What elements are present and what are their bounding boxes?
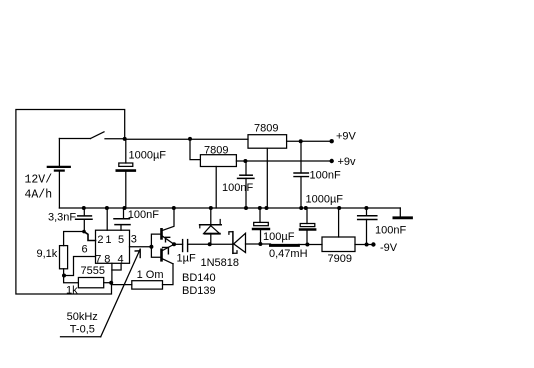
wire output to 1uF — [174, 243, 183, 245]
wire pin 3 to base node — [130, 246, 152, 248]
node zener junction — [208, 242, 212, 246]
diode D2 1N5818 (Schottky) — [229, 232, 271, 254]
label 7909 — [328, 253, 352, 265]
label 100nF (C6) — [128, 209, 159, 221]
wire pin 1 to rail — [106, 208, 108, 230]
ground symbol — [394, 208, 412, 218]
label 50kHz — [67, 311, 98, 323]
wire top +12V line — [125, 138, 248, 140]
capacitor C4 1000uF (right) — [300, 208, 315, 245]
svg-text:7: 7 — [95, 253, 101, 265]
wire 9,1k top to node — [64, 232, 84, 246]
wire +9V output line — [287, 140, 332, 142]
pin labels 7 8 4 — [95, 253, 123, 265]
svg-text:1 Om: 1 Om — [137, 269, 164, 281]
node 1k right / pins 8-4 / +12V — [109, 281, 113, 285]
wire ground rail — [59, 207, 400, 209]
svg-text:BD139: BD139 — [182, 285, 216, 297]
svg-text:3: 3 — [131, 234, 137, 246]
svg-text:5: 5 — [118, 234, 124, 246]
wire pin 4 — [112, 263, 121, 270]
label 1uF — [177, 252, 196, 264]
capacitor C2 100nF (under +9v line) — [238, 161, 254, 208]
node 1000uF / 7909 input — [305, 243, 309, 247]
transistor Q1 BD140 (top, PNP) — [162, 208, 175, 244]
svg-text:7555: 7555 — [81, 265, 105, 277]
label 0,47mH — [269, 248, 308, 260]
svg-text:4A/h: 4A/h — [25, 189, 53, 202]
label 1000uF (C4) — [306, 194, 344, 206]
wire 3,3nF node to pin 2 — [84, 232, 96, 241]
svg-text:1µF: 1µF — [177, 252, 196, 264]
transistor Q2 BD139 (bottom, NPN) — [162, 244, 175, 263]
svg-text:2: 2 — [97, 234, 103, 246]
wire 1 Om right to Q2 collector — [163, 264, 174, 285]
svg-text:1000µF: 1000µF — [306, 194, 344, 206]
node 100nF branch on +9V — [299, 139, 303, 143]
wire 7909 ground pin — [338, 208, 340, 237]
node pin2 / 3,3nF junction — [82, 230, 86, 234]
label T-0,5 — [70, 324, 95, 336]
svg-text:12V/: 12V/ — [25, 174, 53, 187]
wire pin 6 — [64, 257, 96, 276]
svg-text:1N5818: 1N5818 — [201, 257, 240, 269]
svg-text:100nF: 100nF — [128, 209, 159, 221]
svg-text:100nF: 100nF — [375, 225, 406, 237]
label 1k — [66, 285, 78, 297]
svg-text:100nF: 100nF — [310, 170, 341, 182]
wire battery-pack outline (+12V routing loop) — [16, 110, 125, 295]
node A (switch output) — [123, 137, 127, 141]
rail junction dots — [82, 206, 369, 210]
inductor L1 0,47mH — [271, 244, 299, 247]
pointer arrow 50kHz — [61, 249, 141, 337]
label 1 Om — [137, 269, 164, 281]
svg-text:T-0,5: T-0,5 — [70, 324, 95, 336]
terminal +9V — [330, 139, 334, 143]
label BD140 — [182, 272, 216, 284]
battery 12V/4A/h — [48, 167, 70, 208]
switch S1 — [59, 132, 124, 139]
label 3,3nF — [48, 211, 76, 223]
node branch to lower 7809 — [188, 137, 192, 141]
wire 1k right — [104, 282, 112, 284]
svg-text:7809: 7809 — [204, 144, 228, 156]
label 1N5818 — [201, 257, 240, 269]
svg-text:50kHz: 50kHz — [67, 311, 98, 323]
regulator U4 7909 — [322, 237, 355, 252]
regulator U2 7809 (lower) — [200, 155, 236, 167]
svg-text:0,47mH: 0,47mH — [269, 248, 308, 260]
capacitor C5 3,3nF — [76, 208, 92, 232]
label 7555 — [81, 265, 105, 277]
wire to lower 7809 input — [190, 139, 200, 159]
capacitor C9 100nF (on -9V) — [358, 208, 377, 245]
label pin 3 — [131, 234, 137, 246]
IC U3 7555 — [96, 230, 130, 263]
capacitor C3 100nF (under +9V line) — [294, 141, 308, 208]
wire zener node to D2 — [210, 243, 233, 245]
label 9,1k — [37, 248, 58, 260]
svg-text:1k: 1k — [66, 285, 78, 297]
terminal -9V — [371, 242, 375, 246]
svg-text:8: 8 — [104, 253, 110, 265]
node 100nF branch on -9V — [365, 243, 369, 247]
svg-text:+9V: +9V — [336, 131, 357, 143]
node base — [149, 245, 153, 249]
label BD139 — [182, 285, 216, 297]
label 12V/4A/h — [25, 174, 53, 202]
capacitor C6 100nF (pin5 decoupling) — [114, 208, 130, 230]
wire lower 7809 ground pin — [215, 167, 217, 209]
regulator U1 7809 (upper) — [248, 135, 287, 149]
label 100nF (C2) — [222, 182, 253, 194]
resistor R1 9,1k — [60, 246, 68, 269]
capacitor C1 1000uF — [117, 139, 135, 208]
label pin 6 — [82, 244, 88, 256]
label 100nF (C9) — [375, 225, 406, 237]
label 100nF (C3) — [310, 170, 341, 182]
wire +12V to 1 Om resistor — [112, 284, 132, 286]
label 7809 (lower) — [204, 144, 228, 156]
wire node to 1k — [64, 276, 79, 283]
svg-text:7909: 7909 — [328, 253, 352, 265]
svg-text:7809: 7809 — [254, 123, 278, 135]
svg-text:100µF: 100µF — [263, 231, 295, 243]
wire pin 8 — [111, 263, 113, 282]
label 7809 (upper) — [254, 123, 278, 135]
svg-text:1000µF: 1000µF — [129, 150, 167, 162]
label 1000uF — [129, 150, 167, 162]
resistor R3 1 Om — [132, 281, 163, 289]
svg-text:100nF: 100nF — [222, 182, 253, 194]
wire base node to bars — [151, 234, 160, 257]
wire switch to battery — [58, 139, 60, 167]
node 100uF bottom junction — [258, 242, 262, 246]
zener diode D1 — [200, 208, 222, 244]
node emitter output — [172, 242, 176, 246]
svg-text:9,1k: 9,1k — [37, 248, 58, 260]
svg-text:+9v: +9v — [338, 156, 357, 168]
svg-text:6: 6 — [82, 244, 88, 256]
capacitor C7 1uF — [183, 240, 210, 252]
svg-text:BD140: BD140 — [182, 272, 216, 284]
capacitor C8 100uF — [253, 208, 269, 244]
svg-text:3,3nF: 3,3nF — [48, 211, 76, 223]
node R1 bottom / pin6 / 1k — [62, 274, 66, 278]
label +9v — [338, 156, 357, 168]
label -9V — [380, 242, 398, 254]
wire -9V output — [355, 244, 373, 246]
terminal +9v — [330, 159, 334, 163]
label 100uF — [263, 231, 295, 243]
wire upper 7809 ground pin — [266, 148, 268, 208]
label +9V — [336, 131, 357, 143]
wire 9,1k bottom — [63, 269, 65, 276]
node 100nF branch on +9v — [243, 159, 247, 163]
resistor R2 1k — [78, 278, 103, 288]
pin labels 2 1 5 — [97, 234, 124, 246]
wire +9v output line — [236, 160, 331, 162]
svg-text:-9V: -9V — [380, 242, 398, 254]
wire inductor to 7909 — [298, 244, 322, 246]
svg-text:1: 1 — [105, 234, 111, 246]
